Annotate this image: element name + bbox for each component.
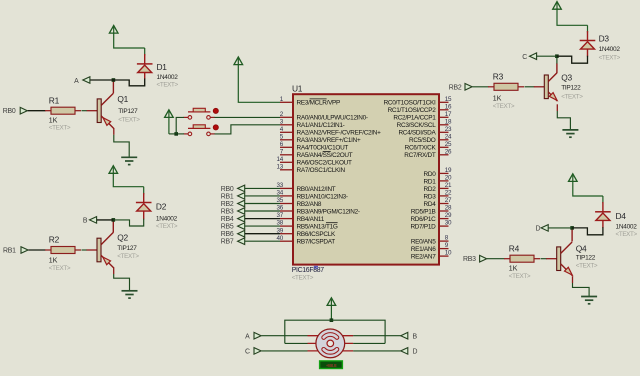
svg-text:D1: D1 xyxy=(157,62,168,72)
svg-text:<TEXT>: <TEXT> xyxy=(616,231,638,238)
svg-text:<TEXT>: <TEXT> xyxy=(156,223,178,230)
svg-text:RB6: RB6 xyxy=(221,231,234,238)
svg-text:<TEXT>: <TEXT> xyxy=(49,125,71,132)
svg-text:RA7/OSC1/CLKIN: RA7/OSC1/CLKIN xyxy=(297,167,346,174)
svg-text:RB0: RB0 xyxy=(3,108,16,115)
svg-text:RE3/MCLR/VPP: RE3/MCLR/VPP xyxy=(297,100,341,107)
svg-text:RA0/AN0/ULPWU/C12IN0-: RA0/AN0/ULPWU/C12IN0- xyxy=(297,115,368,122)
svg-text:Q1: Q1 xyxy=(117,94,128,104)
svg-text:RA1/AN1/C12IN1-: RA1/AN1/C12IN1- xyxy=(297,122,345,129)
svg-text:1K: 1K xyxy=(509,266,518,273)
svg-text:RA5/AN4/SS/C2OUT: RA5/AN4/SS/C2OUT xyxy=(297,152,353,159)
svg-text:15: 15 xyxy=(445,96,452,103)
svg-text:B: B xyxy=(413,333,418,340)
svg-text:17: 17 xyxy=(445,111,452,118)
svg-text:RC3/SCK/SCL: RC3/SCK/SCL xyxy=(397,122,437,129)
svg-text:<TEXT>: <TEXT> xyxy=(292,275,314,282)
svg-text:RB6/ICSPCLK: RB6/ICSPCLK xyxy=(297,231,336,238)
svg-text:<TEXT>: <TEXT> xyxy=(576,262,598,269)
svg-text:25: 25 xyxy=(445,141,452,148)
svg-text:RB3: RB3 xyxy=(221,209,234,216)
svg-text:RB1/AN10/C12IN3-: RB1/AN10/C12IN3- xyxy=(297,193,348,200)
svg-text:23: 23 xyxy=(445,126,452,133)
svg-text:D: D xyxy=(413,349,418,356)
svg-text:16: 16 xyxy=(445,103,452,110)
svg-text:13: 13 xyxy=(276,163,283,170)
svg-text:D2: D2 xyxy=(156,202,167,212)
svg-text:C: C xyxy=(522,54,527,61)
svg-text:Q4: Q4 xyxy=(576,243,587,253)
svg-text:RD7/P1D: RD7/P1D xyxy=(410,224,436,231)
svg-text:A: A xyxy=(74,78,79,85)
svg-text:<TEXT>: <TEXT> xyxy=(493,103,515,110)
svg-text:RB1: RB1 xyxy=(221,193,234,200)
svg-text:PIC16F887: PIC16F887 xyxy=(292,267,325,274)
svg-text:RB5/AN13/T1G: RB5/AN13/T1G xyxy=(297,224,338,231)
svg-text:RB4: RB4 xyxy=(221,216,234,223)
svg-text:RB5: RB5 xyxy=(221,224,234,231)
svg-text:A: A xyxy=(245,333,250,340)
svg-text:RB2/AN8: RB2/AN8 xyxy=(297,201,322,208)
svg-text:19: 19 xyxy=(445,167,452,174)
svg-text:RB7/ICSPDAT: RB7/ICSPDAT xyxy=(297,239,336,246)
svg-text:RB1: RB1 xyxy=(3,248,16,255)
svg-text:RA6/OSC2/CLKOUT: RA6/OSC2/CLKOUT xyxy=(297,160,352,167)
svg-text:21: 21 xyxy=(445,182,452,189)
svg-text:RD6/P1C: RD6/P1C xyxy=(410,216,436,223)
svg-text:1N4002: 1N4002 xyxy=(616,224,638,231)
svg-text:C: C xyxy=(245,349,250,356)
svg-text:24: 24 xyxy=(445,133,452,140)
svg-text:RB2: RB2 xyxy=(449,84,462,91)
svg-text:30: 30 xyxy=(445,220,452,227)
svg-text:RC7/RX/DT: RC7/RX/DT xyxy=(404,152,436,159)
svg-text:RB4/AN11: RB4/AN11 xyxy=(297,216,325,223)
svg-text:<TEXT>: <TEXT> xyxy=(599,54,621,61)
svg-text:RA3/AN3/VREF+/C1IN+: RA3/AN3/VREF+/C1IN+ xyxy=(297,137,361,144)
svg-text:D4: D4 xyxy=(616,211,627,221)
svg-text:TIP127: TIP127 xyxy=(117,245,137,252)
svg-text:<TEXT>: <TEXT> xyxy=(509,273,531,280)
svg-text:RD2: RD2 xyxy=(424,186,437,193)
svg-text:R2: R2 xyxy=(49,235,60,245)
svg-text:R3: R3 xyxy=(493,71,504,81)
svg-text:D: D xyxy=(536,226,541,233)
svg-text:RB3/AN9/PGM/C12IN2-: RB3/AN9/PGM/C12IN2- xyxy=(297,208,360,215)
svg-text:RD5/P1B: RD5/P1B xyxy=(411,208,436,215)
svg-text:1N4002: 1N4002 xyxy=(156,215,178,222)
svg-text:29: 29 xyxy=(445,212,452,219)
svg-text:22: 22 xyxy=(445,190,452,197)
svg-text:TIP122: TIP122 xyxy=(561,85,581,92)
svg-text:28: 28 xyxy=(445,205,452,212)
svg-text:RA4/T0CKI/C1OUT: RA4/T0CKI/C1OUT xyxy=(297,145,349,152)
svg-text:R4: R4 xyxy=(509,243,520,253)
svg-text:27: 27 xyxy=(445,197,452,204)
svg-text:RE1/AN6: RE1/AN6 xyxy=(411,246,436,253)
svg-text:R1: R1 xyxy=(49,95,60,105)
svg-text:RD0: RD0 xyxy=(424,171,437,178)
svg-text:RD4: RD4 xyxy=(424,201,437,208)
svg-text:RA2/AN2/VREF-/CVREF/C2IN+: RA2/AN2/VREF-/CVREF/C2IN+ xyxy=(297,130,382,137)
svg-text:1K: 1K xyxy=(49,117,58,124)
svg-text:RD3: RD3 xyxy=(424,193,437,200)
svg-text:U1: U1 xyxy=(292,84,303,94)
svg-text:1K: 1K xyxy=(493,95,502,102)
svg-text:RE2/AN7: RE2/AN7 xyxy=(411,254,436,261)
svg-text:<TEXT>: <TEXT> xyxy=(561,93,583,100)
svg-text:RE0/AN5: RE0/AN5 xyxy=(411,239,436,246)
svg-text:RD1: RD1 xyxy=(424,178,437,185)
svg-text:RC0/T1OSO/T1CKI: RC0/T1OSO/T1CKI xyxy=(384,100,436,107)
svg-text:+88.8: +88.8 xyxy=(326,363,337,368)
svg-text:RC4/SDI/SDA: RC4/SDI/SDA xyxy=(398,130,436,137)
svg-text:26: 26 xyxy=(445,148,452,155)
svg-text:<TEXT>: <TEXT> xyxy=(157,82,179,89)
svg-text:<TEXT>: <TEXT> xyxy=(118,116,140,123)
svg-text:RB7: RB7 xyxy=(221,239,234,246)
svg-text:TIP127: TIP127 xyxy=(118,108,138,115)
svg-text:14: 14 xyxy=(276,156,283,163)
svg-text:<TEXT>: <TEXT> xyxy=(49,265,71,272)
svg-text:1K: 1K xyxy=(49,258,58,265)
svg-text:RC6/TX/CK: RC6/TX/CK xyxy=(405,145,437,152)
svg-text:TIP122: TIP122 xyxy=(576,255,596,262)
svg-text:B: B xyxy=(83,218,88,225)
svg-text:18: 18 xyxy=(445,118,452,125)
svg-text:RB3: RB3 xyxy=(463,256,476,263)
svg-text:Q2: Q2 xyxy=(117,233,128,243)
svg-text:Q3: Q3 xyxy=(561,72,572,82)
svg-text:10: 10 xyxy=(445,250,452,257)
svg-text:1N4002: 1N4002 xyxy=(599,46,621,53)
svg-text:RB0: RB0 xyxy=(221,186,234,193)
svg-text:RC1/T1OSI/CCP2: RC1/T1OSI/CCP2 xyxy=(388,107,437,114)
svg-text:20: 20 xyxy=(445,175,452,182)
svg-text:<TEXT>: <TEXT> xyxy=(117,253,139,260)
svg-text:RB0/AN12/INT: RB0/AN12/INT xyxy=(297,186,336,193)
svg-text:RC5/SDO: RC5/SDO xyxy=(409,137,436,144)
svg-text:RB2: RB2 xyxy=(221,201,234,208)
svg-text:D3: D3 xyxy=(599,34,610,44)
svg-text:RC2/P1A/CCP1: RC2/P1A/CCP1 xyxy=(393,115,436,122)
svg-text:1N4002: 1N4002 xyxy=(157,74,179,81)
